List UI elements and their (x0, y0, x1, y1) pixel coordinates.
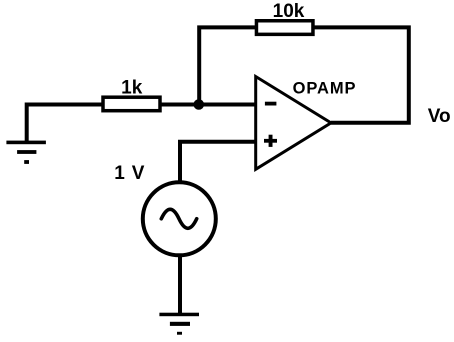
inverting input minus symbol (265, 102, 277, 106)
svg-text:OPAMP: OPAMP (293, 80, 357, 98)
voltage source V1 (sine) (143, 182, 216, 255)
sine symbol inside V1 (161, 209, 196, 228)
op-amp U1 triangle (256, 77, 331, 170)
wire: V1 bottom to ground (178, 256, 182, 315)
ground GND2 (bottom) (159, 313, 199, 335)
non-inverting input plus symbol (264, 135, 277, 147)
wire: left ground riser and horizontal input wire to R1 (27, 104, 102, 143)
svg-text:1k: 1k (121, 77, 143, 98)
svg-text:1 V: 1 V (114, 163, 145, 184)
ground GND1 (left) (6, 141, 46, 164)
wire: non-inverting input to source V1 (180, 142, 256, 182)
resistor R1 1k (103, 97, 160, 111)
svg-text:10k: 10k (273, 1, 305, 22)
wire: top rail from R2 to output, down right side to output node (313, 27, 409, 122)
resistor R2 10k (256, 21, 313, 35)
junction node (inverting input / feedback tap) (194, 99, 205, 110)
wire: feedback riser from junction to top rail (199, 27, 256, 104)
wire: R1 right to op-amp inverting input (161, 102, 257, 106)
svg-text:Vo: Vo (428, 106, 451, 127)
